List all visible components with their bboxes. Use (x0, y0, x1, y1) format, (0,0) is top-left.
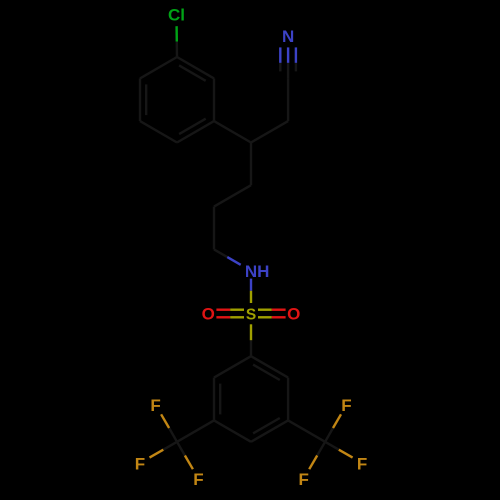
bond CH - CH2 chain (250, 143, 252, 186)
bond CH2 - CH2 chain (214, 185, 251, 206)
bond CH2 - NH (214, 249, 227, 257)
S=O double bond right (258, 309, 272, 311)
S=O double bond left (216, 309, 230, 311)
bond ring2 C5 - CF3 carbon left (177, 420, 214, 441)
bond CH2 - CH2 chain 2 (213, 207, 215, 250)
svg-text:F: F (357, 454, 367, 473)
svg-text:N: N (282, 27, 294, 46)
svg-text:O: O (202, 305, 215, 324)
svg-text:F: F (299, 470, 309, 489)
C-F bonds right CF3 (325, 428, 333, 442)
svg-text:NH: NH (245, 262, 270, 281)
bond CH2 - C(nitrile) (287, 78, 289, 121)
svg-text:F: F (193, 470, 203, 489)
bond CH - CH2 (nitrile branch) (251, 121, 288, 142)
ring 2 double bond inner lines (253, 365, 280, 380)
svg-text:O: O (287, 305, 300, 324)
svg-text:F: F (341, 396, 351, 415)
bond S - ring2 C1 (250, 324, 252, 340)
ring A double bond inner lines (179, 65, 206, 80)
svg-text:S: S (246, 307, 256, 324)
benzene ring A (chlorophenyl) (177, 57, 214, 78)
benzene ring 2 (bis-CF3 phenyl) (251, 356, 288, 377)
nitrile C#N triple bond (287, 47, 289, 63)
svg-text:F: F (135, 454, 145, 473)
bond NH - S (250, 279, 252, 291)
bond ring A C3 - CH benzylic (214, 121, 251, 142)
svg-text:F: F (150, 396, 160, 415)
bond Cl-C(ring A) with chlorine half (175, 26, 178, 41)
C-F bonds left CF3 (169, 428, 177, 442)
svg-text:Cl: Cl (168, 6, 185, 25)
bond ring2 C3 - CF3 carbon right (288, 420, 325, 441)
